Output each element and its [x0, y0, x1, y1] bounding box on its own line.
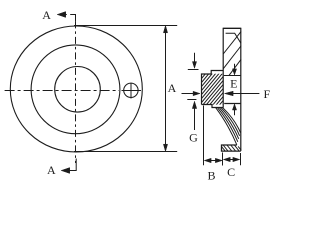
outer circle of disc (front view) — [10, 26, 142, 152]
inner bore circle — [55, 67, 101, 113]
bottom flange outline — [222, 145, 241, 151]
middle circle — [31, 45, 120, 134]
section arrow bottom elbow — [68, 159, 77, 171]
cone band upper boundary — [223, 108, 241, 133]
extension line y=99.8 — [187, 99, 196, 101]
rim top edge — [223, 27, 242, 29]
bottom flange hatch — [222, 145, 242, 151]
rim left vertical (section) — [222, 28, 224, 107]
dim E top arrow — [234, 64, 236, 69]
dim A extension line bottom — [74, 151, 177, 153]
dim A extension line top — [74, 25, 177, 27]
dim E bottom arrow — [234, 110, 236, 115]
dim F arrow and leader — [233, 93, 259, 95]
rim mid feature line — [224, 75, 241, 77]
svg-text:G: G — [189, 130, 198, 144]
svg-text:B: B — [207, 169, 215, 183]
dim C arrows — [229, 159, 235, 161]
rim right vertical full height — [240, 28, 242, 151]
hub hatch dense — [202, 48, 224, 130]
svg-text:F: F — [263, 87, 270, 101]
dim G up arrow — [194, 108, 196, 130]
dim A arrow up — [163, 26, 167, 33]
svg-text:C: C — [227, 165, 235, 179]
svg-text:A: A — [47, 163, 56, 177]
rim bottom edge — [224, 103, 241, 105]
section arrow top head — [57, 12, 65, 18]
dim A vertical dimension line — [165, 30, 167, 147]
section arrow bottom head — [61, 168, 69, 174]
horizontal center line — [5, 90, 119, 92]
small hole vertical center line — [130, 83, 132, 99]
hub block outline — [202, 71, 224, 105]
cone band inner lines — [218, 108, 238, 142]
vertical section line A-A (dashed) — [75, 21, 77, 163]
rim hatch — [223, 31, 241, 75]
section arrow top elbow — [63, 15, 76, 22]
dim C right extension line — [240, 153, 242, 165]
left down arrow (step top) — [194, 53, 196, 62]
cone band lower boundary — [216, 108, 237, 145]
rim inner lip line — [226, 33, 241, 43]
dim B left extension line (long) — [203, 106, 205, 166]
dim A arrow down — [163, 144, 167, 151]
hub bottom and lower step — [202, 105, 224, 108]
dim B arrows — [211, 160, 217, 162]
extension line step-top — [188, 69, 199, 71]
svg-text:A: A — [168, 81, 177, 95]
small bolt hole — [124, 83, 138, 97]
svg-text:E: E — [230, 76, 237, 90]
svg-text:A: A — [42, 8, 51, 22]
left right-pointing arrow — [182, 93, 194, 95]
dim B/C middle extension line — [222, 153, 224, 166]
